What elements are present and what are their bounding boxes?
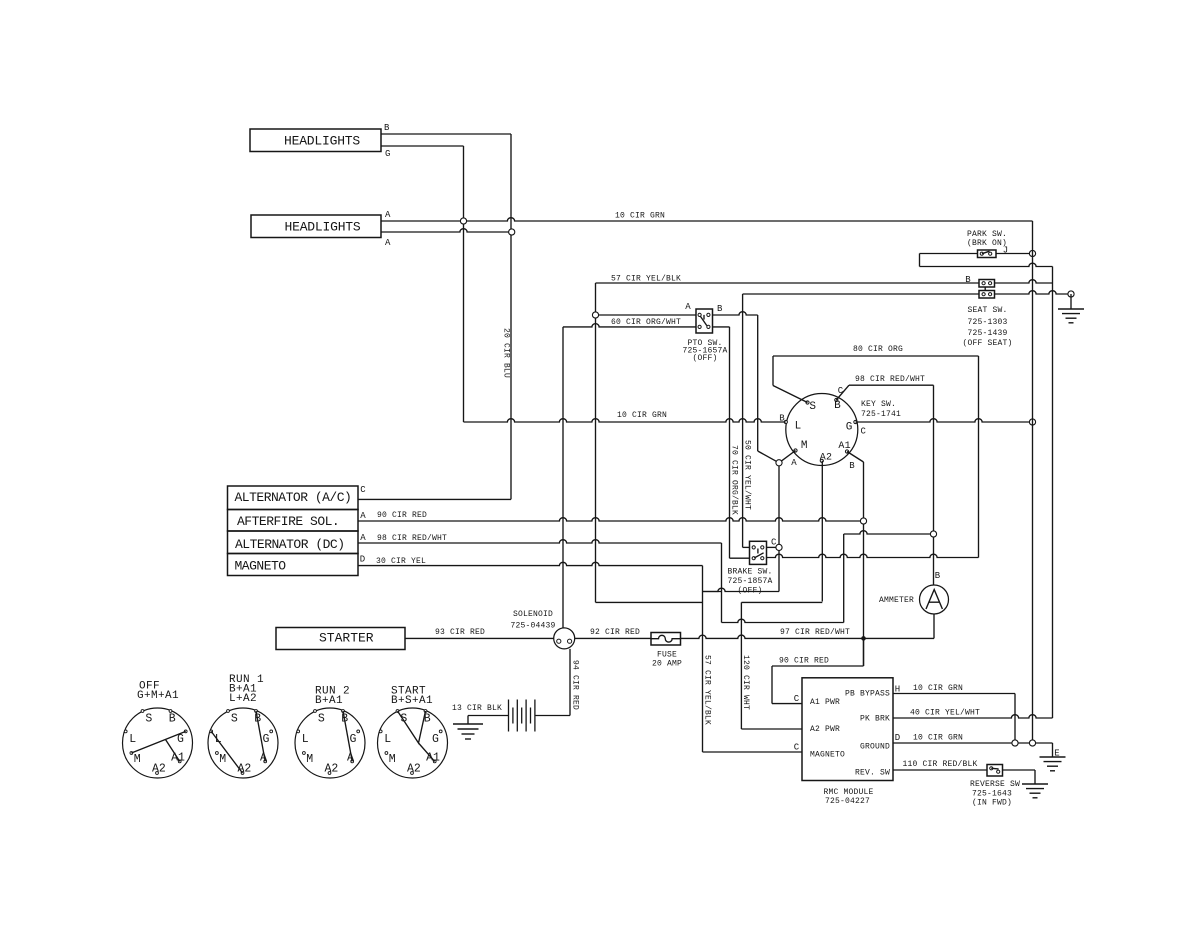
svg-text:G+M+A1: G+M+A1: [137, 690, 179, 702]
wire ground bus vertical: [1032, 221, 1034, 740]
pins key position diagram OFF: [124, 710, 187, 775]
wire reverse ground stem: [1034, 770, 1036, 784]
svg-text:120 CIR WHT: 120 CIR WHT: [741, 655, 750, 710]
wire A2 link run: [741, 601, 822, 603]
svg-text:S: S: [318, 712, 325, 725]
svg-text:RMC MODULE: RMC MODULE: [823, 788, 873, 797]
labels key position diagram START: [384, 712, 440, 775]
wire 57 CIR YEL/BLK magneto lead: [703, 751, 803, 753]
component seat switch box lower: [979, 291, 995, 299]
svg-text:(IN FWD): (IN FWD): [972, 799, 1012, 808]
wire headlight2 A lower to 20 CIR BLU node: [381, 229, 512, 232]
svg-text:80 CIR ORG: 80 CIR ORG: [853, 345, 903, 354]
wire contacts G+M+A1 (OFF): [131, 731, 185, 761]
ground symbol at seat switch: [1058, 309, 1084, 323]
svg-text:D: D: [895, 733, 901, 743]
svg-text:S: S: [231, 712, 238, 725]
svg-text:G: G: [846, 422, 853, 434]
wire 90 CIR RED upper run: [772, 665, 864, 667]
svg-text:BRAKE SW.: BRAKE SW.: [727, 568, 772, 577]
svg-text:SEAT SW.: SEAT SW.: [967, 306, 1007, 315]
wire 50 CIR YEL/WHT vertical (seat to brake): [742, 294, 744, 547]
svg-text:97 CIR RED/WHT: 97 CIR RED/WHT: [780, 628, 850, 637]
wire 98 CIR RED/WHT top run: [849, 384, 934, 386]
wire battery to 94 CIR RED: [535, 715, 570, 717]
svg-text:70 CIR ORG/BLK: 70 CIR ORG/BLK: [730, 445, 739, 515]
svg-text:HEADLIGHTS: HEADLIGHTS: [284, 134, 360, 149]
svg-text:B: B: [384, 123, 390, 133]
wire 10 CIR GRN ground run: [893, 742, 1053, 744]
svg-text:M: M: [219, 753, 226, 766]
svg-text:REV. SW: REV. SW: [855, 769, 890, 778]
component starter motor box (STARTER): [276, 628, 405, 650]
svg-text:FUSE: FUSE: [657, 651, 677, 660]
svg-text:G: G: [432, 733, 439, 746]
svg-text:60 CIR ORG/WHT: 60 CIR ORG/WHT: [611, 318, 681, 327]
wire fuse element: [651, 635, 681, 642]
wire 10 CIR GRN PB BYPASS run: [893, 693, 1015, 695]
svg-text:725-1303: 725-1303: [967, 318, 1007, 327]
svg-text:(OFF): (OFF): [692, 354, 717, 363]
svg-text:L: L: [384, 733, 391, 746]
wire reverse switch to ground: [1003, 769, 1036, 771]
component ignition key switch KEY SW. 725-1741: [786, 394, 858, 466]
label A glyph inside ammeter: [926, 590, 942, 610]
svg-text:ALTERNATOR (DC): ALTERNATOR (DC): [235, 537, 345, 552]
component starter solenoid: [554, 628, 575, 649]
pins key position diagram RUN 2: [297, 710, 360, 775]
component key position diagram RUN 1: [208, 708, 278, 778]
wire 60 CIR ORG/WHT node to PTO A: [596, 314, 697, 316]
svg-text:AMMETER: AMMETER: [879, 596, 914, 605]
wire park jog vertical: [919, 254, 921, 267]
wire 90 CIR RED afterfire to A1 node: [358, 518, 864, 521]
component key position diagram START: [378, 708, 448, 778]
svg-text:20 AMP: 20 AMP: [652, 660, 682, 669]
wire 92 CIR RED solenoid to fuse: [575, 637, 651, 639]
svg-text:50 CIR YEL/WHT: 50 CIR YEL/WHT: [743, 440, 752, 510]
wire brake C node lower stub: [778, 551, 780, 592]
svg-text:B: B: [935, 571, 941, 581]
labels key position diagram OFF: [129, 712, 185, 775]
svg-text:SOLENOID: SOLENOID: [513, 610, 553, 619]
svg-text:REVERSE SW: REVERSE SW: [970, 780, 1020, 789]
svg-text:A: A: [791, 458, 797, 468]
wire jog between kill verticals: [703, 591, 722, 593]
wire seat switch lower to ground node: [995, 291, 1068, 294]
ground symbol E: [1040, 757, 1066, 771]
svg-text:A: A: [685, 302, 691, 312]
wire seat ground stem: [1070, 294, 1072, 309]
wire 60 ORG/WHT branch bottom run: [596, 601, 703, 603]
svg-text:AFTERFIRE SOL.: AFTERFIRE SOL.: [237, 514, 339, 529]
svg-text:A: A: [360, 533, 366, 543]
svg-text:C: C: [794, 694, 800, 704]
svg-text:L+A2: L+A2: [229, 693, 257, 705]
wire headlight1 B to 20 CIR BLU vertical: [381, 133, 511, 135]
svg-text:M: M: [801, 440, 808, 452]
svg-text:90 CIR RED: 90 CIR RED: [377, 511, 427, 520]
node seat switch ground: [1068, 291, 1074, 297]
svg-text:D: D: [360, 555, 366, 565]
component PTO switch box: [696, 309, 713, 333]
svg-text:B: B: [849, 461, 855, 471]
svg-text:725-04227: 725-04227: [825, 797, 870, 806]
svg-text:A1 PWR: A1 PWR: [810, 698, 840, 707]
pins solenoid: [557, 639, 561, 643]
component RMC module box: [802, 678, 893, 781]
svg-text:10 CIR GRN: 10 CIR GRN: [913, 684, 963, 693]
svg-text:ALTERNATOR (A/C): ALTERNATOR (A/C): [235, 490, 352, 505]
node brake switch C: [776, 544, 782, 550]
svg-text:G: G: [385, 149, 391, 159]
svg-text:G: G: [350, 733, 357, 746]
wire PTO lever: [700, 316, 707, 326]
svg-text:A2 PWR: A2 PWR: [810, 725, 840, 734]
wire PB BYPASS down to ground row: [1014, 694, 1016, 740]
svg-text:GROUND: GROUND: [860, 743, 890, 752]
svg-text:MAGNETO: MAGNETO: [235, 559, 287, 574]
wire park switch A down-jog to 40 CIR YEL/WHT vertical: [920, 263, 1053, 266]
wire 94 CIR RED solenoid to battery: [569, 649, 571, 716]
wire alternator AC C to 20 CIR BLU: [358, 498, 511, 500]
wire 80 CIR ORG brake lower row: [767, 554, 979, 557]
wire 90 CIR RED A1 PWR lead: [772, 703, 802, 705]
wire 98 net to ammeter node: [844, 531, 934, 534]
wire 57/60 branch vertical: [595, 283, 597, 602]
svg-text:13 CIR BLK: 13 CIR BLK: [452, 704, 502, 713]
component battery cells: [509, 700, 535, 732]
wire 80 CIR ORG right vertical: [978, 356, 980, 558]
component brake switch box: [750, 541, 767, 564]
wire 57 CIR YEL/BLK to seat switch: [596, 282, 980, 284]
wire 80 CIR ORG top run: [773, 355, 979, 357]
svg-text:57 CIR YEL/BLK: 57 CIR YEL/BLK: [611, 275, 681, 284]
svg-text:A: A: [385, 238, 391, 248]
wire 40 CIR YEL/WHT PK BRK run: [893, 715, 1053, 718]
wire 20 CIR BLU vertical: [510, 134, 512, 499]
wire 10 CIR GRN row to key L: [464, 419, 786, 422]
wire 110 CIR RED/BLK rev sw lead: [893, 769, 987, 771]
wire 93 CIR RED starter to solenoid: [405, 637, 554, 639]
wire PTO lower-right to 70 CIR ORG/BLK vertical: [713, 326, 730, 328]
svg-text:STARTER: STARTER: [319, 631, 374, 646]
wire PTO-B feed vertical: [757, 315, 759, 451]
wire ground E stem: [1052, 743, 1054, 757]
wire A2 PWR lead: [741, 728, 802, 730]
component key position diagram OFF: [123, 708, 193, 778]
svg-text:KEY SW.: KEY SW.: [861, 400, 896, 409]
svg-text:A2: A2: [407, 762, 421, 775]
svg-text:PARK SW.: PARK SW.: [967, 230, 1007, 239]
svg-text:A2: A2: [324, 762, 338, 775]
wire key S diagonal: [773, 386, 808, 403]
wire brake lever: [754, 553, 763, 558]
svg-text:725-1741: 725-1741: [861, 410, 901, 419]
component headlight lamp 2 (HEADLIGHTS): [251, 215, 381, 238]
component fuse box (FUSE 20 AMP): [651, 633, 681, 646]
node key G / ground bus: [1029, 419, 1035, 425]
svg-text:S: S: [145, 712, 152, 725]
svg-text:(BRK ON): (BRK ON): [967, 239, 1007, 248]
wire 40 CIR YEL/WHT vertical: [1052, 267, 1054, 719]
wire contacts B+A1 L+A2 (RUN 1): [211, 711, 265, 773]
svg-text:A2: A2: [152, 762, 166, 775]
component park switch box: [978, 250, 997, 258]
wire seat switch upper to 40 CIR YEL/WHT vertical: [995, 280, 1053, 283]
wire 13 CIR BLK ground to battery: [468, 715, 509, 717]
node key B / ammeter B: [930, 531, 936, 537]
svg-text:HEADLIGHTS: HEADLIGHTS: [285, 220, 361, 235]
svg-text:(OFF): (OFF): [737, 587, 762, 596]
svg-text:(OFF SEAT): (OFF SEAT): [962, 339, 1012, 348]
svg-text:PB BYPASS: PB BYPASS: [845, 690, 890, 699]
wire park switch J to node: [996, 253, 1029, 255]
svg-text:725-1439: 725-1439: [967, 329, 1007, 338]
wire contacts B+S+A1 (START): [398, 711, 435, 761]
wire 98 net lower run: [722, 619, 844, 622]
wire 120 CIR WHT vertical: [740, 602, 742, 729]
pins key switch: [806, 401, 809, 404]
pins PTO switch: [698, 313, 701, 316]
junction 97 CIR RED/WHT / key A1 / 90 CIR RED: [861, 636, 866, 641]
wire key B diagonal: [836, 385, 849, 400]
node junction headlight G / 10 CIR GRN: [460, 218, 466, 224]
component headlight lamp 1 (HEADLIGHTS): [250, 129, 381, 152]
svg-text:C: C: [794, 743, 800, 753]
wire contacts B+A1 (RUN 2): [343, 711, 352, 761]
wire PTO lower-left to solenoid vertical: [563, 324, 696, 327]
wire park switch lever: [982, 251, 990, 254]
wire key M diagonal: [779, 451, 796, 463]
wire node down to brake C node: [778, 466, 780, 544]
wire brake lower-left pin lead: [730, 557, 750, 559]
svg-text:PK BRK: PK BRK: [860, 715, 890, 724]
svg-text:S: S: [809, 401, 816, 413]
pins seat switch upper: [982, 282, 985, 285]
wire 98 net riser: [843, 534, 845, 623]
wire key A2 vertical: [821, 461, 823, 602]
svg-text:MAGNETO: MAGNETO: [810, 751, 845, 760]
svg-text:110 CIR RED/BLK: 110 CIR RED/BLK: [902, 760, 977, 769]
component alternator AC box: [228, 486, 359, 510]
component ammeter gauge: [920, 585, 949, 614]
wire reverse switch lever: [991, 767, 998, 770]
node park switch J / ground bus: [1029, 250, 1035, 256]
wire brake-C stub run: [703, 588, 780, 591]
wire 70 CIR ORG/BLK vertical (PTO to brake): [729, 327, 731, 558]
labels key position diagram RUN 2: [302, 712, 357, 775]
pins key position diagram RUN 1: [210, 710, 273, 775]
wire brake C pin lead: [767, 546, 776, 548]
svg-text:10 CIR GRN: 10 CIR GRN: [913, 734, 963, 743]
wire seat switch link: [984, 287, 986, 291]
svg-text:M: M: [306, 753, 313, 766]
wire park switch A to left jog: [920, 253, 978, 255]
wire 30 CIR YEL magneto run: [358, 562, 703, 565]
svg-text:L: L: [302, 733, 309, 746]
wire key G row to ground bus node: [855, 419, 1029, 422]
svg-text:A1: A1: [838, 441, 850, 452]
wire 98 CIR RED/WHT alternator DC run: [358, 540, 722, 543]
svg-text:725-1857A: 725-1857A: [727, 577, 772, 586]
wire headlight1 G to ground vertical: [381, 145, 464, 147]
wire PTO feed down to solenoid: [562, 327, 564, 628]
svg-text:10 CIR GRN: 10 CIR GRN: [617, 411, 667, 420]
svg-text:30 CIR YEL: 30 CIR YEL: [376, 557, 426, 566]
wire key A1 vertical (97 net): [863, 462, 865, 666]
labels key position diagram RUN 1: [215, 712, 270, 775]
pins brake switch: [752, 546, 755, 549]
wire 97 CIR RED/WHT fuse to ammeter: [681, 635, 935, 638]
svg-text:93 CIR RED: 93 CIR RED: [435, 628, 485, 637]
wire battery ground stem: [467, 716, 469, 725]
component afterfire solenoid box: [228, 510, 359, 532]
node junction headlight2 lower / 20 CIR BLU: [509, 229, 515, 235]
wire seat switch lower row from 50 CIR YEL/WHT corner: [743, 293, 979, 295]
node key M / PTO B / brake C: [776, 460, 782, 466]
ground symbol at battery: [453, 724, 483, 739]
svg-text:B: B: [717, 304, 723, 314]
wire 90 CIR RED to 97 junction: [863, 638, 865, 666]
svg-text:C: C: [360, 485, 366, 495]
ground symbol at reverse switch: [1022, 784, 1048, 798]
wire brake lever stub: [757, 549, 759, 554]
node PB bypass / ground row: [1012, 740, 1018, 746]
svg-text:L: L: [795, 421, 802, 433]
wire 10 CIR GRN headlight2 A to park switch: [381, 218, 1033, 221]
component reverse switch box: [987, 765, 1003, 777]
pins key position diagram START: [379, 710, 442, 775]
svg-text:98 CIR RED/WHT: 98 CIR RED/WHT: [855, 375, 925, 384]
svg-text:B+A1: B+A1: [315, 695, 343, 707]
svg-text:725-1643: 725-1643: [972, 790, 1012, 799]
svg-text:10 CIR GRN: 10 CIR GRN: [615, 212, 665, 221]
wire PTO B to solenoid-feed corner: [713, 312, 758, 315]
wire PTO-B feed diagonal to node: [758, 451, 779, 463]
wire 90 CIR RED riser: [771, 666, 773, 704]
svg-text:A: A: [360, 511, 366, 521]
svg-text:725-04439: 725-04439: [510, 622, 555, 631]
svg-text:92 CIR RED: 92 CIR RED: [590, 628, 640, 637]
pins seat switch lower: [982, 293, 985, 296]
component alternator DC box: [228, 531, 359, 554]
node ground bus / ground row: [1029, 740, 1035, 746]
wire brake upper-left pin lead: [743, 546, 750, 548]
wire vertical from headlight1 G down to 10 CIR GRN row: [463, 146, 465, 422]
svg-text:B: B: [169, 712, 176, 725]
svg-text:C: C: [860, 427, 866, 437]
svg-text:M: M: [134, 753, 141, 766]
svg-text:B: B: [834, 400, 841, 412]
svg-text:90 CIR RED: 90 CIR RED: [779, 657, 829, 666]
wire key B vertical to ammeter node: [933, 385, 935, 585]
pins park switch: [980, 252, 983, 255]
svg-text:G: G: [263, 733, 270, 746]
svg-text:M: M: [389, 753, 396, 766]
component seat switch box upper: [979, 280, 995, 288]
pins reverse switch: [990, 767, 993, 770]
wire kill net vertical (to RMC magneto): [702, 566, 704, 752]
component key position diagram RUN 2: [295, 708, 365, 778]
svg-text:57 CIR YEL/BLK: 57 CIR YEL/BLK: [703, 655, 712, 725]
node 57 YEL/BLK / 60 ORG/WHT branch: [592, 312, 598, 318]
wire 80 CIR ORG riser: [772, 356, 774, 386]
svg-text:40 CIR YEL/WHT: 40 CIR YEL/WHT: [910, 709, 980, 718]
wire 98 net vertical jog: [721, 543, 723, 623]
svg-text:L: L: [129, 733, 136, 746]
svg-text:20 CIR BLU: 20 CIR BLU: [502, 328, 511, 378]
svg-text:B+S+A1: B+S+A1: [391, 695, 433, 707]
wire PTO lever stub: [703, 315, 705, 320]
node 90 CIR RED / key A1: [860, 518, 866, 524]
wire key A1 diagonal: [847, 452, 864, 463]
svg-text:A: A: [385, 210, 391, 220]
component magneto box: [228, 554, 359, 576]
svg-text:94 CIR RED: 94 CIR RED: [571, 660, 580, 710]
wire ammeter bottom lead: [933, 614, 935, 638]
svg-text:98 CIR RED/WHT: 98 CIR RED/WHT: [377, 534, 447, 543]
